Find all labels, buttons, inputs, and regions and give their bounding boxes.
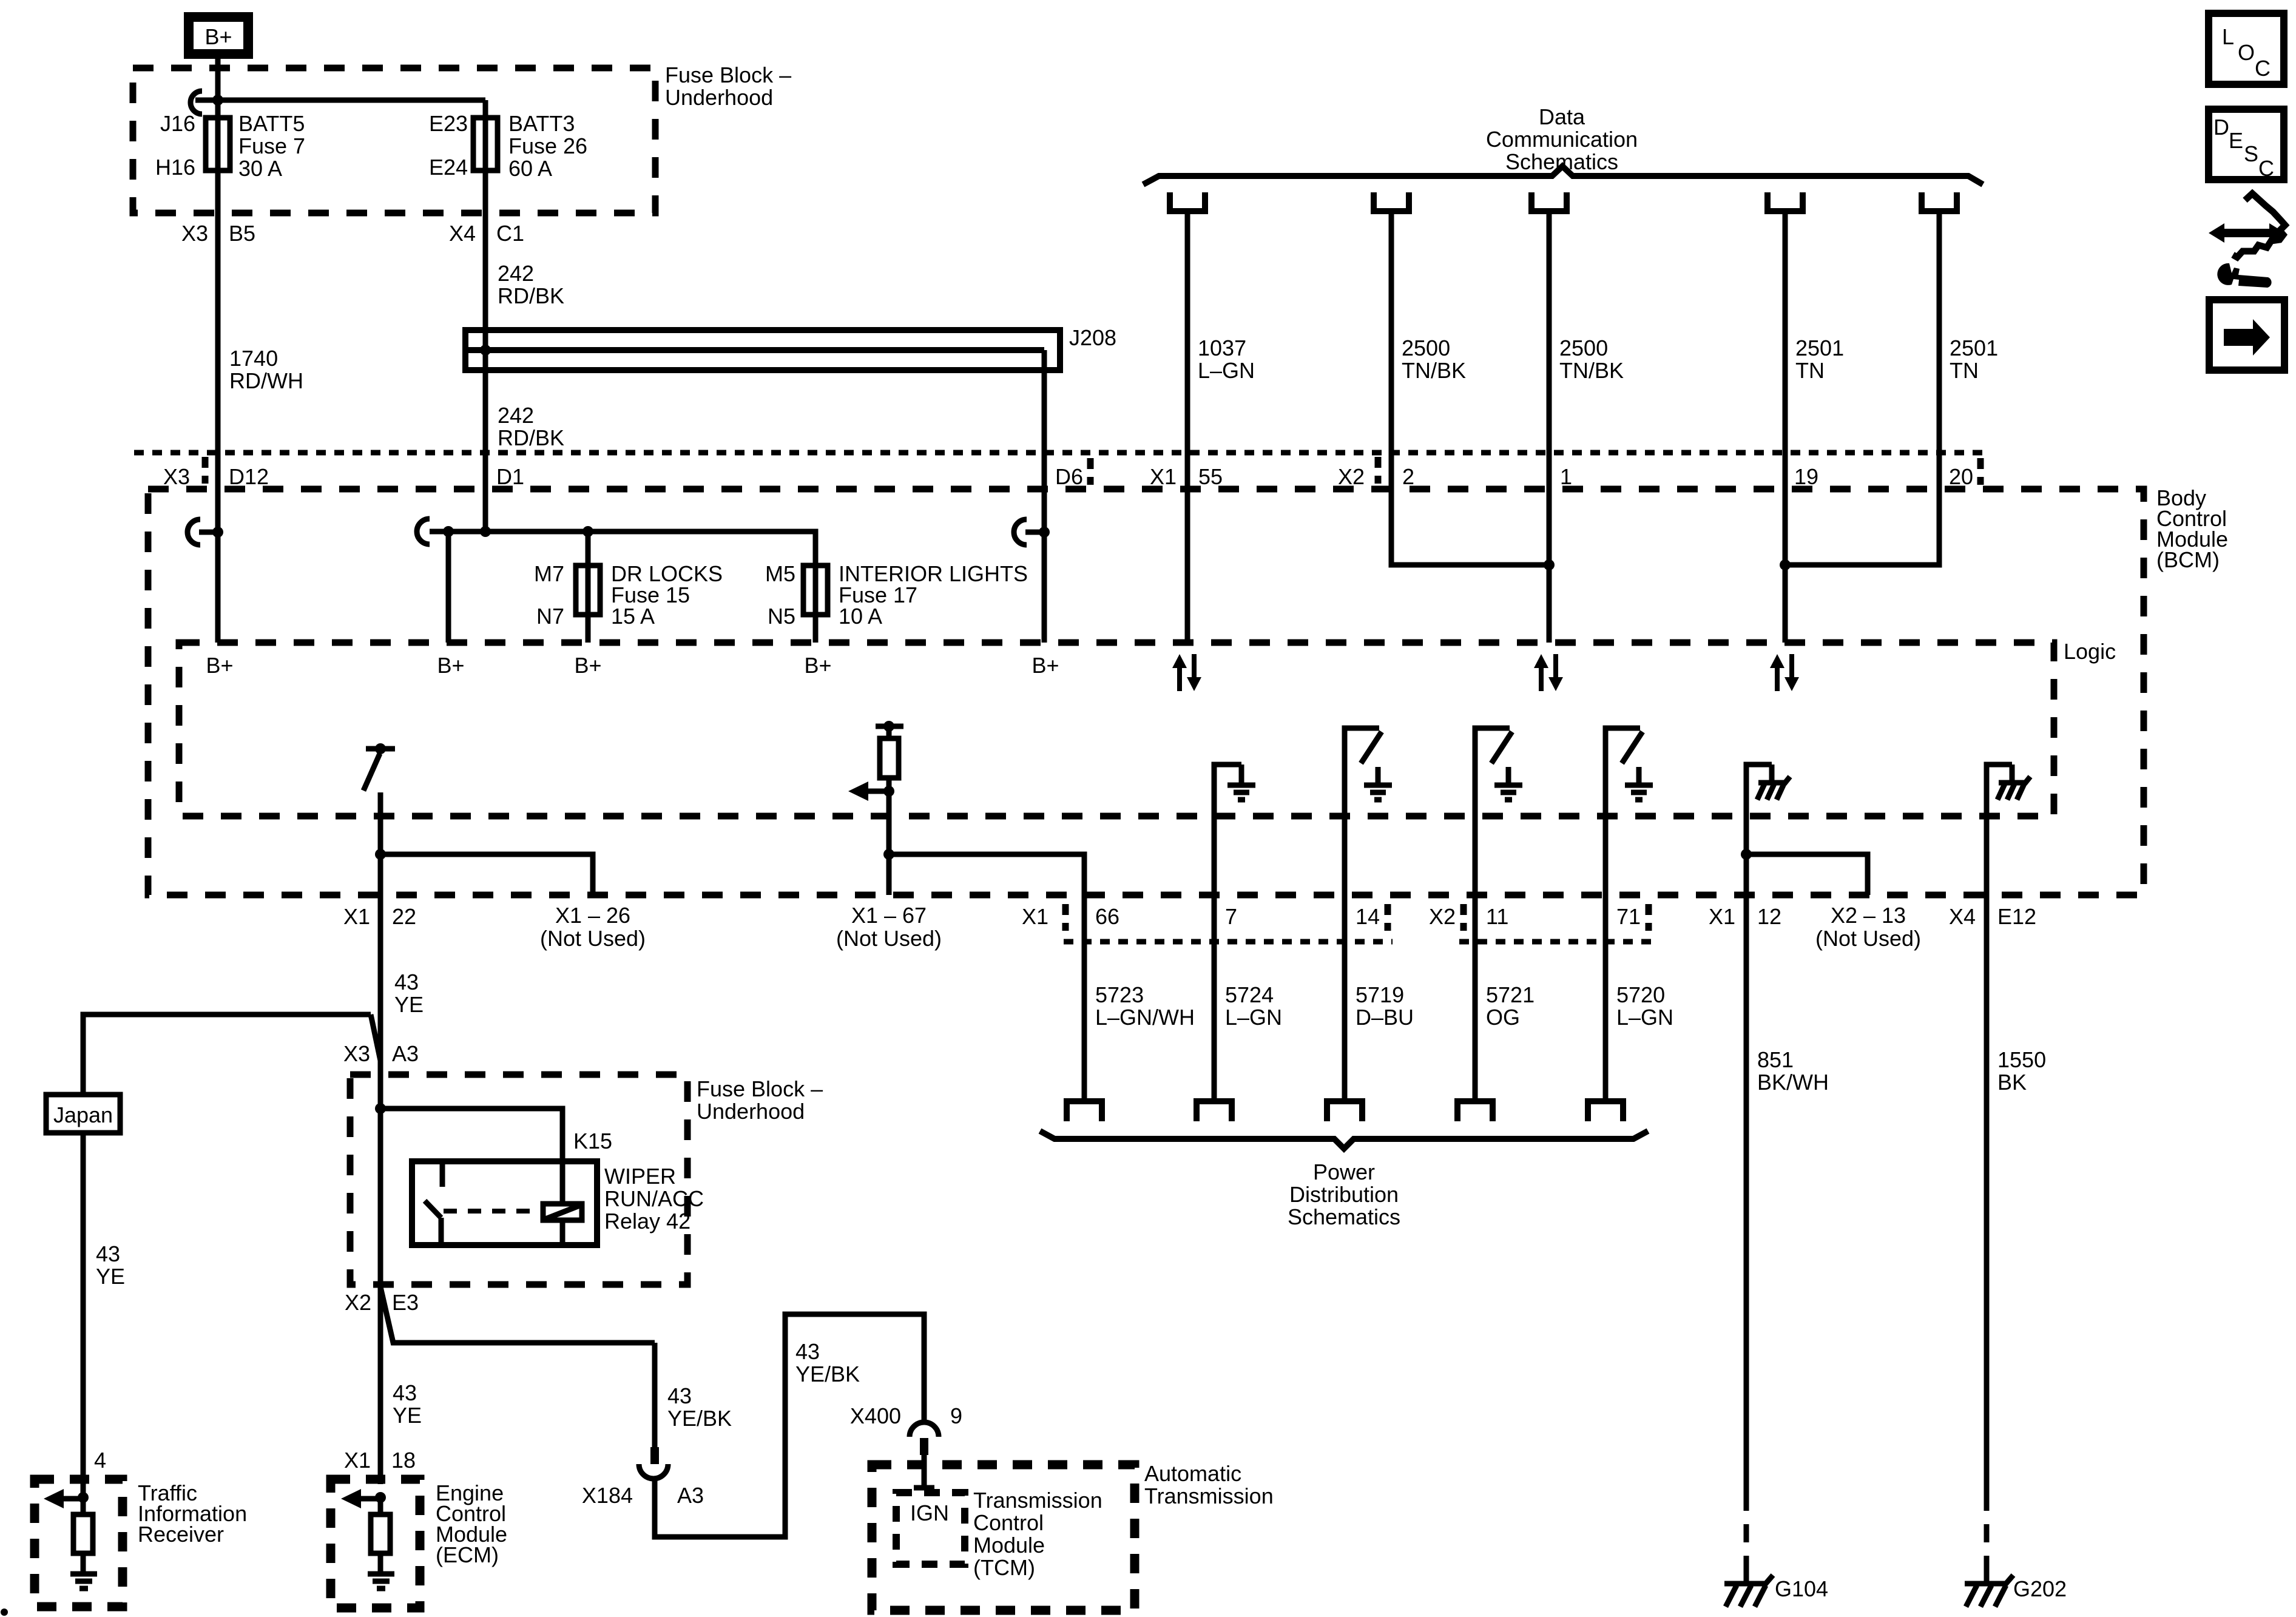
svg-text:X3: X3 [181, 221, 208, 246]
svg-text:X1: X1 [1150, 464, 1177, 489]
wire X184 around to X400 [655, 1314, 924, 1537]
pin label X2 2 [1338, 457, 1414, 489]
icon arrow box [2209, 300, 2284, 370]
svg-text:2: 2 [1402, 464, 1414, 489]
junction relay branch [375, 1103, 386, 1114]
pin label X2 E3 [345, 1290, 419, 1315]
wire 66 down [1082, 895, 1087, 1101]
svg-text:Control: Control [973, 1510, 1044, 1535]
svg-text:X4: X4 [449, 221, 476, 246]
svg-text:D1: D1 [496, 464, 524, 489]
wire stub to X1-66 [889, 854, 1084, 895]
traffic information receiver dashed box [35, 1479, 123, 1607]
svg-text:X1: X1 [1709, 904, 1735, 929]
wire label 43 YE left [96, 1241, 125, 1289]
wire 2501 TN (right) [1785, 211, 1939, 565]
wire label 2501 TN b [1950, 336, 1998, 383]
wire switch output [378, 792, 383, 895]
label transmission control module [973, 1488, 1102, 1580]
svg-text:Fuse Block –: Fuse Block – [697, 1076, 823, 1101]
fuse F17 (INTERIOR LIGHTS Fuse 17 10A) [803, 565, 828, 615]
pin label D6 [1055, 458, 1090, 489]
switch to ground SG1 (wire 5719) [1345, 728, 1392, 1101]
svg-text:12: 12 [1757, 904, 1781, 929]
wire label 43 YE upper [394, 970, 424, 1017]
junction 2500 pair [1544, 559, 1555, 570]
svg-text:L–GN: L–GN [1198, 358, 1255, 383]
svg-text:TN: TN [1950, 358, 1979, 383]
switch to ground SG2 (wire 5721) [1475, 728, 1522, 1101]
svg-text:E24: E24 [429, 155, 468, 180]
svg-text:1037: 1037 [1198, 336, 1246, 360]
svg-text:OG: OG [1486, 1005, 1520, 1030]
svg-text:RD/WH: RD/WH [229, 368, 303, 393]
brace to data communication schematics [1143, 166, 1983, 184]
pin label 71 [1616, 904, 1649, 931]
off-page connector cup wire 5724 [1197, 1101, 1232, 1121]
svg-text:TN/BK: TN/BK [1402, 358, 1466, 383]
switch S1 (logic output) [363, 743, 395, 791]
resistor R3 in ECM [378, 1497, 383, 1514]
svg-text:TN: TN [1795, 358, 1825, 383]
svg-text:2500: 2500 [1402, 336, 1450, 360]
wire fuse 17 feed [813, 565, 819, 643]
wire label 242 RD/BK lower [498, 403, 564, 450]
svg-text:D–BU: D–BU [1356, 1005, 1414, 1030]
svg-text:M5: M5 [765, 561, 795, 586]
svg-text:1550: 1550 [1997, 1047, 2046, 1072]
svg-text:5724: 5724 [1225, 982, 1274, 1007]
ground G1 internal (wire 5724) [1214, 765, 1255, 1101]
relay K15 coil [543, 1204, 582, 1220]
fuse block underhood dashed box 2 [350, 1075, 687, 1284]
wire label 5723 L-GN/WH [1095, 982, 1195, 1030]
svg-text:Relay 42: Relay 42 [604, 1209, 690, 1234]
svg-text:N7: N7 [536, 604, 564, 629]
junction bus drop [443, 526, 454, 537]
pin label X1 55 [1150, 464, 1223, 489]
svg-text:43: 43 [393, 1380, 417, 1405]
value label BATT3 Fuse 26 60 A [508, 111, 587, 181]
wire branch jog to X184 [380, 1287, 655, 1343]
svg-text:(BCM): (BCM) [2156, 547, 2220, 572]
svg-text:14: 14 [1356, 904, 1380, 929]
wire bus drop to B+ [446, 532, 451, 643]
svg-text:Underhood: Underhood [665, 85, 773, 110]
svg-text:RUN/ACC: RUN/ACC [604, 1186, 704, 1211]
wire stub to X2-13 [1746, 854, 1868, 895]
svg-text:20: 20 [1949, 464, 1973, 489]
wire label 2501 TN a [1795, 336, 1844, 383]
svg-text:Data: Data [1539, 104, 1585, 129]
svg-text:10 A: 10 A [839, 604, 882, 629]
svg-text:YE/BK: YE/BK [795, 1362, 860, 1386]
svg-text:WIPER: WIPER [604, 1164, 676, 1189]
connector X184 A3 [582, 1447, 704, 1508]
svg-text:TN/BK: TN/BK [1559, 358, 1624, 383]
svg-text:X1 – 67: X1 – 67 [851, 903, 927, 928]
page mark bottom left [1, 1609, 8, 1616]
wire 2500 TN/BK (right) to BCM X2-1 [1547, 211, 1552, 643]
wire Japan to traffic receiver [81, 1133, 86, 1497]
svg-text:11: 11 [1486, 904, 1508, 929]
svg-text:(Not Used): (Not Used) [836, 926, 942, 951]
svg-text:L–GN/WH: L–GN/WH [1095, 1005, 1195, 1030]
junction 2501 pair [1780, 559, 1791, 570]
svg-text:O: O [2238, 40, 2255, 65]
svg-text:Underhood: Underhood [697, 1099, 805, 1124]
svg-text:71: 71 [1616, 904, 1641, 929]
connector X400 pin 9 [850, 1403, 962, 1455]
pin label 20 [1949, 458, 1980, 489]
svg-text:X184: X184 [582, 1483, 633, 1508]
svg-text:X2: X2 [1429, 904, 1456, 929]
off-page connector cup wire 2501a [1768, 192, 1803, 211]
wire to relay coil [380, 1109, 562, 1204]
svg-text:X2: X2 [345, 1290, 371, 1315]
junction fuse 15 drop [582, 526, 593, 537]
svg-text:22: 22 [392, 904, 416, 929]
svg-text:18: 18 [391, 1448, 416, 1473]
svg-text:YE: YE [394, 992, 424, 1017]
label fuse block underhood [665, 62, 791, 110]
wire label 2500 TN/BK a [1402, 336, 1466, 383]
svg-text:Communication: Communication [1486, 127, 1638, 152]
svg-text:X1: X1 [343, 904, 370, 929]
label automatic transmission [1144, 1461, 1274, 1508]
pin label X3 A3 [343, 1041, 419, 1066]
svg-text:5721: 5721 [1486, 982, 1535, 1007]
svg-text:E23: E23 [429, 111, 468, 136]
svg-text:2501: 2501 [1795, 336, 1844, 360]
svg-text:B+: B+ [204, 24, 232, 49]
connector row dotted line bottom left group [1064, 939, 1393, 945]
svg-text:K15: K15 [573, 1129, 612, 1153]
svg-text:Module: Module [973, 1533, 1045, 1558]
fuse F26 (BATT3 Fuse 26 60A) [473, 118, 498, 170]
svg-text:2501: 2501 [1950, 336, 1998, 360]
pin label X2-13 not used [1815, 903, 1921, 951]
svg-text:B+: B+ [206, 653, 233, 678]
svg-text:BATT3: BATT3 [508, 111, 575, 136]
wire from B+ down through fuse 7 to BCM pin D12 [215, 59, 221, 643]
pin label X1 18 [344, 1448, 416, 1473]
svg-text:43: 43 [795, 1339, 820, 1364]
svg-text:C1: C1 [496, 221, 524, 246]
automatic transmission dashed box [872, 1465, 1135, 1610]
label data communication schematics [1486, 104, 1638, 174]
svg-text:7: 7 [1225, 904, 1237, 929]
pin label X4 E12 [1949, 904, 2036, 929]
svg-text:D6: D6 [1055, 464, 1083, 489]
resistor R2 in receiver [81, 1497, 86, 1514]
wire fuse 26 drop [483, 100, 488, 532]
svg-text:X3: X3 [163, 464, 190, 489]
wire label 5724 L-GN [1225, 982, 1282, 1030]
svg-text:Distribution: Distribution [1289, 1182, 1399, 1207]
svg-text:J16: J16 [160, 111, 195, 136]
svg-text:J208: J208 [1069, 325, 1116, 350]
connector row dotted line [134, 450, 1985, 456]
pin label X1-26 not used [540, 903, 646, 951]
wire 43 YE main down from X1-22 [378, 895, 383, 1484]
svg-text:5723: 5723 [1095, 982, 1144, 1007]
pin row X4 C1 [449, 221, 524, 246]
label WIPER RUN/ACC Relay 42 [604, 1164, 704, 1234]
svg-text:5720: 5720 [1616, 982, 1665, 1007]
connector arc on wire D6 [1014, 519, 1050, 545]
svg-text:43: 43 [667, 1383, 692, 1408]
svg-text:B5: B5 [229, 221, 255, 246]
ECM input arrow [341, 1489, 386, 1508]
svg-text:A3: A3 [392, 1041, 419, 1066]
off-page connector cup wire 5721 [1457, 1101, 1493, 1121]
ground in receiver [70, 1574, 97, 1588]
value label DR LOCKS Fuse 15 15 A [611, 561, 723, 629]
bidirectional arrows serial data 3 [1770, 654, 1799, 691]
svg-text:Fuse 7: Fuse 7 [238, 133, 305, 158]
pin label 14 [1356, 904, 1388, 931]
svg-text:S: S [2244, 141, 2258, 166]
wire to ECM ground [378, 1553, 383, 1573]
wire branch to Japan (Y merge) [83, 1014, 371, 1095]
resistor R1 with arrow (logic driver) [848, 721, 903, 801]
icon wrench and arrow [2209, 194, 2285, 288]
label engine control module [436, 1480, 507, 1567]
svg-text:1740: 1740 [229, 346, 278, 371]
svg-text:X4: X4 [1949, 904, 1976, 929]
svg-text:19: 19 [1794, 464, 1818, 489]
wire label 1037 L-GN [1198, 336, 1255, 383]
ground in ECM [368, 1574, 394, 1588]
svg-text:RD/BK: RD/BK [498, 283, 564, 308]
pin row X3 B5 [181, 221, 255, 246]
svg-text:X3: X3 [343, 1041, 370, 1066]
ground G202 [1965, 1575, 2067, 1607]
svg-text:L–GN: L–GN [1616, 1005, 1673, 1030]
junction X1-26 stub [375, 849, 386, 860]
svg-text:X2 – 13: X2 – 13 [1831, 903, 1906, 928]
svg-text:Japan: Japan [53, 1102, 113, 1127]
wire X400 to TCM IGN [914, 1455, 934, 1488]
svg-text:BK/WH: BK/WH [1757, 1070, 1829, 1095]
icon DESC box [2209, 109, 2284, 181]
off-page connector cup wire 1037 [1170, 192, 1205, 211]
connector arc at bus left end [417, 519, 430, 544]
svg-text:4: 4 [94, 1448, 106, 1473]
wire down to X184 [652, 1343, 658, 1448]
label fuse block underhood 2 [697, 1076, 823, 1124]
fuse block underhood dashed box [133, 68, 655, 213]
junction X1-67 stub [883, 849, 894, 860]
pin label X1-67 not used [836, 903, 942, 951]
wire label 43 YE lower [393, 1380, 422, 1428]
wire 1550 BK [1984, 895, 1990, 1493]
svg-text:9: 9 [950, 1403, 962, 1428]
switch to ground SG3 (wire 5720) [1606, 728, 1653, 1101]
bidirectional arrows serial data 2 [1534, 654, 1563, 691]
relay K15 switch [425, 1161, 442, 1245]
wire label 43 YE/BK left [667, 1383, 732, 1431]
connector arc on wire D12 [187, 519, 223, 545]
svg-text:55: 55 [1198, 464, 1223, 489]
svg-text:2500: 2500 [1559, 336, 1608, 360]
node Japan (market option box) [46, 1095, 120, 1133]
svg-text:(Not Used): (Not Used) [540, 926, 646, 951]
svg-text:B+: B+ [804, 653, 831, 678]
wire label 1550 BK [1997, 1047, 2046, 1095]
svg-text:L: L [2222, 24, 2234, 49]
splice pack J208 [465, 325, 1116, 370]
svg-text:B+: B+ [437, 653, 464, 678]
svg-text:5719: 5719 [1356, 982, 1404, 1007]
svg-text:D: D [2213, 115, 2229, 140]
svg-text:C: C [2255, 56, 2271, 81]
svg-text:242: 242 [498, 261, 534, 286]
pin label X1 66 [1022, 904, 1119, 931]
junction X2-13 stub [1741, 849, 1752, 860]
off-page connector cup wire 2500b [1531, 192, 1567, 211]
logic dashed box [179, 643, 2054, 816]
junction wire 242 at bus [480, 526, 491, 537]
relay K15 actuator dashed [444, 1209, 543, 1214]
label body control module [2156, 485, 2228, 572]
pin label X2 11 [1429, 904, 1508, 931]
svg-text:YE: YE [393, 1403, 422, 1428]
svg-text:43: 43 [96, 1241, 120, 1266]
svg-text:IGN: IGN [910, 1501, 949, 1525]
bidirectional arrows serial data 1 [1172, 654, 1201, 691]
svg-text:YE/BK: YE/BK [667, 1406, 732, 1431]
svg-text:(Not Used): (Not Used) [1815, 926, 1921, 951]
svg-text:M7: M7 [534, 561, 564, 586]
off-page connector cup wire 2501b [1922, 192, 1957, 211]
wire resistor output [886, 791, 892, 895]
svg-text:15 A: 15 A [611, 604, 655, 629]
wire label 851 BK/WH [1757, 1047, 1829, 1095]
wire coil to pin [560, 1220, 566, 1245]
fuse F7 (BATT5 Fuse 7 30A) [206, 118, 230, 170]
svg-text:Receiver: Receiver [138, 1522, 224, 1547]
svg-text:N5: N5 [768, 604, 795, 629]
svg-text:Power: Power [1313, 1160, 1375, 1184]
svg-text:30 A: 30 A [238, 156, 282, 181]
wire 1037 L-GN to BCM X1-55 [1185, 211, 1190, 643]
wire 2500 TN/BK (left) [1391, 211, 1549, 565]
svg-text:E3: E3 [392, 1290, 419, 1315]
svg-text:G202: G202 [2013, 1576, 2067, 1601]
value label BATT5 Fuse 7 30 A [238, 111, 305, 181]
svg-text:(ECM): (ECM) [436, 1542, 499, 1567]
svg-text:E: E [2229, 128, 2243, 153]
svg-text:BK: BK [1997, 1070, 2027, 1095]
pin label X1 22 [343, 904, 416, 929]
off-page connector cup wire 2500a [1374, 192, 1409, 211]
svg-text:43: 43 [394, 970, 419, 994]
svg-text:C: C [2258, 156, 2274, 181]
wire top horizontal B+ feed to fuse 26 [195, 98, 485, 103]
pin label X3 D12 [163, 457, 269, 489]
svg-text:(TCM): (TCM) [973, 1555, 1035, 1580]
svg-text:X400: X400 [850, 1403, 901, 1428]
TCM IGN inner dashed box [896, 1493, 965, 1564]
svg-text:Transmission: Transmission [973, 1488, 1102, 1513]
svg-text:851: 851 [1757, 1047, 1794, 1072]
svg-text:242: 242 [498, 403, 534, 428]
off-page connector cup wire 5719 [1327, 1101, 1362, 1121]
wire label 242 RD/BK upper [498, 261, 564, 308]
svg-text:Logic: Logic [2064, 639, 2116, 664]
wire label 2500 TN/BK b [1559, 336, 1624, 383]
svg-text:D12: D12 [229, 464, 269, 489]
svg-text:RD/BK: RD/BK [498, 425, 564, 450]
pin label X1 12 [1709, 904, 1781, 929]
wire from J208 to BCM pin D6 [1042, 350, 1047, 643]
off-page connector cup wire 5720 [1588, 1101, 1623, 1121]
svg-text:L–GN: L–GN [1225, 1005, 1282, 1030]
svg-text:B+: B+ [574, 653, 601, 678]
off-page connector cup wire 5723 [1067, 1101, 1102, 1121]
fuse F15 (DR LOCKS Fuse 15 15A) [576, 565, 600, 615]
wire label 43 YE/BK right [795, 1339, 860, 1386]
value label INTERIOR LIGHTS Fuse 17 10 A [839, 561, 1028, 629]
svg-text:Schematics: Schematics [1288, 1204, 1400, 1229]
label power distribution schematics [1288, 1160, 1400, 1229]
svg-text:Fuse 26: Fuse 26 [508, 133, 587, 158]
svg-text:X2: X2 [1338, 464, 1365, 489]
svg-text:E12: E12 [1997, 904, 2036, 929]
wire label 5719 D-BU [1356, 982, 1414, 1030]
svg-text:60 A: 60 A [508, 156, 552, 181]
chassis ground CG2 (wire 1550) [1987, 765, 2030, 895]
wire fuse 15 feed [586, 532, 591, 643]
brace to power distribution schematics [1040, 1131, 1648, 1149]
svg-text:Fuse Block –: Fuse Block – [665, 62, 791, 87]
svg-text:Transmission: Transmission [1144, 1484, 1274, 1508]
svg-text:B+: B+ [1032, 653, 1059, 678]
internal B+ bus [430, 532, 815, 565]
svg-text:BATT5: BATT5 [238, 111, 305, 136]
junction at fuse 7 top [212, 95, 223, 106]
svg-text:Automatic: Automatic [1144, 1461, 1241, 1486]
svg-text:1: 1 [1560, 464, 1572, 489]
wire to receiver ground [81, 1553, 86, 1573]
svg-text:X1: X1 [1022, 904, 1048, 929]
wire label 1740 RD/WH [229, 346, 303, 393]
wire 851 BK/WH [1744, 895, 1749, 1493]
ground G104 [1724, 1575, 1828, 1607]
svg-text:YE: YE [96, 1264, 125, 1289]
relay K15 box [412, 1161, 597, 1245]
icon LOC box [2209, 13, 2284, 84]
svg-text:X1: X1 [344, 1448, 371, 1473]
connector arc at left end of feed [191, 91, 202, 114]
wire stub to X1-26 [380, 854, 593, 895]
connector row dotted line bottom right group [1459, 939, 1652, 945]
wire label 5721 OG [1486, 982, 1535, 1030]
body control module dashed box [148, 489, 2144, 895]
engine control module dashed box [331, 1479, 420, 1608]
svg-text:A3: A3 [677, 1483, 704, 1508]
wire 2501 TN (left) to BCM X2-19 [1783, 211, 1788, 643]
node B+ (battery positive box) [189, 17, 248, 54]
label traffic information receiver [138, 1480, 247, 1547]
svg-text:X1 – 26: X1 – 26 [555, 903, 630, 928]
svg-text:H16: H16 [155, 155, 195, 180]
receiver input arrow [44, 1489, 89, 1508]
svg-text:66: 66 [1095, 904, 1119, 929]
chassis ground CG1 (wire 851) [1746, 765, 1790, 895]
